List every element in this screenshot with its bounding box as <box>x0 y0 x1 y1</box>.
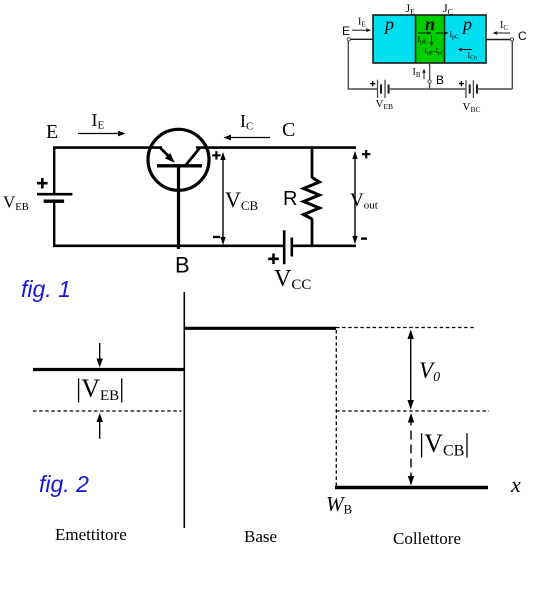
vertical separator line <box>183 292 185 528</box>
IE current arrow <box>78 133 119 135</box>
battery VEB long plate <box>37 193 72 196</box>
resistor R lead top <box>311 146 314 178</box>
rail between batteries <box>389 88 466 90</box>
wire C down <box>511 41 513 89</box>
svg-text:x: x <box>510 472 521 497</box>
Vout arrow double <box>354 154 356 241</box>
transistor emitter lead with arrow (PNP) <box>160 148 170 158</box>
wire E down <box>347 41 349 89</box>
transistor base lead down <box>177 166 180 249</box>
svg-text:Emettitore: Emettitore <box>55 525 127 544</box>
resistor R zigzag <box>304 178 320 220</box>
transistor collector lead <box>186 148 201 166</box>
svg-text:IB: IB <box>413 67 421 79</box>
arrow IpE inside base <box>418 32 428 34</box>
dashed line mid right <box>336 410 489 412</box>
junction JC line <box>444 15 446 63</box>
Vout + sign <box>362 150 370 158</box>
battery VEB (inset): plates <box>377 80 379 98</box>
IC arrow (inset) <box>496 32 510 34</box>
svg-text:p: p <box>461 14 472 34</box>
svg-text:B: B <box>175 253 190 278</box>
svg-text:E: E <box>342 24 350 38</box>
battery VCC short plate <box>290 238 293 257</box>
VEB up arrow <box>99 418 101 439</box>
wire B from box down <box>429 63 431 89</box>
svg-text:C: C <box>282 119 295 141</box>
wire box to C node <box>486 39 511 41</box>
wire E node to box <box>351 38 374 40</box>
svg-text:E: E <box>46 121 58 143</box>
base n region <box>415 15 444 63</box>
svg-text:|VCB|: |VCB| <box>419 429 470 460</box>
rail right segment <box>477 88 512 90</box>
arrow ICn leftward in collector p <box>461 49 472 51</box>
top wire right segment <box>196 146 356 149</box>
battery VEB short plate <box>44 199 65 202</box>
resistor R lead bottom <box>311 219 314 248</box>
bottom wire right segment <box>292 245 356 248</box>
B node circle <box>428 80 431 83</box>
dashed line left (emitter lower ref) <box>33 410 182 412</box>
arrow IpC crossing JC <box>436 32 445 34</box>
dashed line top right (base level ref) <box>336 327 476 329</box>
svg-text:|VEB|: |VEB| <box>76 374 124 404</box>
svg-text:R: R <box>283 188 297 210</box>
VCB - sign <box>213 236 220 238</box>
transistor Q1 circle <box>148 129 209 190</box>
VCB arrow double <box>222 155 224 242</box>
bottom rail left segment <box>348 88 378 90</box>
svg-text:VCC: VCC <box>274 266 311 293</box>
VEB down arrow <box>99 343 101 363</box>
emitter level line <box>33 368 184 371</box>
svg-text:IE: IE <box>358 17 366 29</box>
Vout - sign <box>361 237 367 239</box>
svg-text:Collettore: Collettore <box>393 529 461 548</box>
svg-text:VEB: VEB <box>376 98 394 111</box>
top wire left segment <box>53 146 162 149</box>
svg-text:JC: JC <box>443 1 453 16</box>
svg-text:fig. 2: fig. 2 <box>39 471 89 497</box>
IC current arrow <box>230 137 270 139</box>
svg-text:VEB: VEB <box>3 193 29 214</box>
battery VBC plates <box>465 80 467 98</box>
svg-text:Base: Base <box>244 527 277 546</box>
bottom wire left segment <box>53 245 283 248</box>
battery VCC long plate <box>283 230 286 264</box>
plus sign VEB inset <box>370 81 375 86</box>
svg-text:IC: IC <box>240 111 253 133</box>
VCB + sign <box>212 151 220 159</box>
box border <box>373 15 486 63</box>
collector level line <box>335 486 488 490</box>
IB arrow up <box>423 72 425 79</box>
svg-text:n: n <box>425 14 435 34</box>
svg-text:C: C <box>518 29 527 43</box>
IE arrow (inset) <box>352 29 367 31</box>
dashed vertical at WB <box>335 330 337 486</box>
junction JE line <box>415 15 417 63</box>
left wire upper <box>53 146 55 193</box>
V0 double arrow <box>410 333 412 406</box>
emitter p region <box>373 15 415 63</box>
left wire lower <box>53 203 55 247</box>
svg-text:WB: WB <box>326 492 353 517</box>
svg-text:B: B <box>436 73 444 87</box>
svg-text:V0: V0 <box>419 358 440 385</box>
collector p region <box>444 15 486 63</box>
plus sign VBC <box>459 81 464 86</box>
C node circle <box>510 38 513 41</box>
plus sign VCC <box>268 254 279 265</box>
plus sign VEB <box>37 178 48 189</box>
arrow IpE-IpC downward <box>431 35 433 43</box>
transistor base bar <box>157 164 202 167</box>
svg-text:VBC: VBC <box>463 101 481 114</box>
base level line <box>184 327 336 330</box>
svg-text:Vout: Vout <box>350 190 378 212</box>
svg-text:fig. 1: fig. 1 <box>21 276 71 302</box>
svg-text:p: p <box>383 14 394 34</box>
E node circle <box>347 38 350 41</box>
svg-text:IE: IE <box>92 110 105 132</box>
svg-text:JE: JE <box>406 1 416 16</box>
svg-text:IC: IC <box>500 20 508 32</box>
svg-text:VCB: VCB <box>225 187 259 213</box>
|VCB| double arrow (dashed shaft) <box>410 417 412 483</box>
